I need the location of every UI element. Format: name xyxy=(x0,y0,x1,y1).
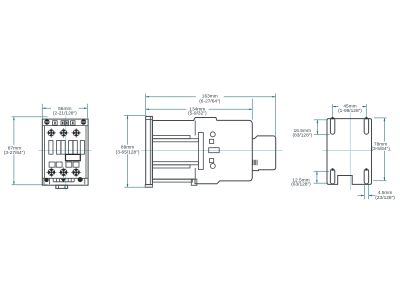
svg-text:(2-21/128″): (2-21/128″) xyxy=(53,110,77,116)
svg-text:163mm: 163mm xyxy=(202,94,218,100)
svg-text:(3-27/64″): (3-27/64″) xyxy=(4,150,26,156)
svg-text:(5-9/32″): (5-9/32″) xyxy=(188,111,207,117)
svg-text:(83/128″): (83/128″) xyxy=(293,133,313,139)
svg-text:(3-5/64″): (3-5/64″) xyxy=(371,146,390,152)
svg-text:(63/128″): (63/128″) xyxy=(291,182,311,188)
svg-text:(23/128″): (23/128″) xyxy=(375,195,395,201)
svg-text:(3-65/128″): (3-65/128″) xyxy=(116,149,140,155)
svg-text:(1-99/128″): (1-99/128″) xyxy=(338,108,362,114)
svg-text:(6-27/64″): (6-27/64″) xyxy=(199,99,221,105)
